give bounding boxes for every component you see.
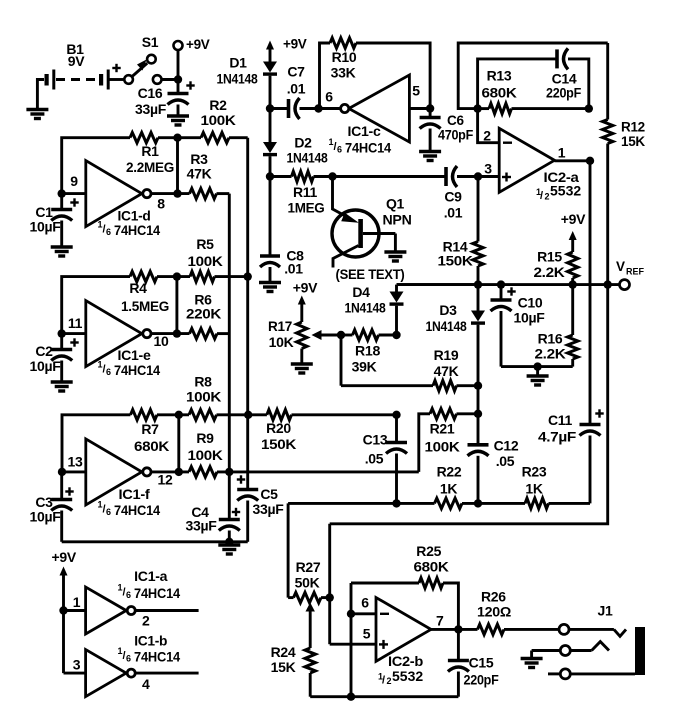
wire (151, 332, 190, 335)
svg-text:R18: R18 (355, 343, 381, 359)
resistor R1 (126, 133, 174, 176)
svg-text:R9: R9 (196, 430, 214, 446)
junction (474, 172, 482, 180)
svg-text:REF: REF (626, 267, 645, 277)
battery B1 ground (26, 80, 48, 119)
svg-text:/: / (382, 675, 385, 687)
capacitor C13 (363, 415, 407, 504)
wire (457, 175, 499, 178)
ground (167, 116, 189, 125)
wire net A (228, 194, 231, 520)
capacitor C7 (287, 64, 306, 120)
resistor R4 (121, 271, 169, 314)
wire (478, 107, 489, 110)
junction node pin13 (58, 468, 66, 476)
node +9V (561, 211, 586, 252)
wire (462, 502, 525, 505)
svg-text:33µF: 33µF (253, 501, 285, 517)
inverter IC1-b (73, 633, 181, 697)
wire (328, 524, 331, 598)
wire (512, 107, 589, 110)
wire (158, 136, 201, 139)
svg-text:33K: 33K (331, 65, 356, 81)
svg-text:R26: R26 (481, 589, 506, 605)
capacitor C10 (491, 285, 546, 367)
capacitor C12 (468, 414, 519, 504)
wire (151, 470, 189, 473)
svg-text:NPN: NPN (383, 212, 412, 228)
junction (173, 189, 181, 197)
node +9V (51, 549, 76, 673)
wire (177, 415, 180, 472)
wire (176, 138, 179, 194)
junction (175, 468, 183, 476)
svg-text:R27: R27 (296, 559, 321, 575)
svg-text:C11: C11 (548, 412, 573, 428)
svg-text:2: 2 (545, 192, 550, 202)
svg-text:.01: .01 (287, 81, 306, 97)
svg-text:1N4148: 1N4148 (217, 71, 258, 87)
svg-text:R22: R22 (437, 464, 462, 480)
svg-text:2.2MEG: 2.2MEG (126, 159, 174, 175)
resistor R22 (435, 464, 463, 509)
wire (217, 332, 229, 335)
junction (173, 272, 181, 280)
wire VREF row (397, 283, 620, 286)
svg-text:15K: 15K (271, 659, 296, 675)
svg-text:D1: D1 (229, 55, 247, 71)
svg-text:100K: 100K (188, 447, 223, 463)
potentiometer R17 (268, 280, 341, 365)
svg-text:R15: R15 (537, 249, 562, 265)
wire (270, 107, 288, 110)
svg-text:100K: 100K (186, 389, 221, 405)
svg-text:100K: 100K (425, 439, 460, 455)
wire (62, 470, 86, 473)
wire (477, 325, 480, 386)
junction (604, 280, 612, 288)
capacitor C9 (444, 166, 463, 221)
svg-text:1K: 1K (440, 481, 457, 497)
svg-text:10: 10 (154, 333, 169, 349)
svg-text:2.2K: 2.2K (535, 346, 566, 362)
junction (497, 280, 505, 288)
wire (568, 59, 589, 109)
svg-text:50K: 50K (295, 575, 320, 591)
svg-text:C10: C10 (518, 295, 543, 311)
svg-text:R7: R7 (141, 421, 159, 437)
svg-text:C15: C15 (469, 655, 494, 671)
svg-text:C13: C13 (363, 432, 388, 448)
wire outer loop (458, 43, 608, 109)
svg-text:680K: 680K (482, 85, 517, 101)
svg-text:+9V: +9V (561, 211, 586, 227)
svg-text:IC1-e: IC1-e (118, 347, 152, 363)
resistor R11 (270, 171, 325, 215)
svg-text:R12: R12 (621, 120, 645, 135)
svg-text:74HC14: 74HC14 (134, 586, 181, 601)
svg-text:10µF: 10µF (30, 219, 62, 235)
svg-text:C16: C16 (138, 85, 163, 101)
wire (215, 275, 248, 278)
svg-text:S1: S1 (142, 34, 159, 50)
junction (225, 538, 233, 546)
svg-text:R24: R24 (271, 644, 296, 660)
wire (549, 502, 591, 505)
inverter IC1-f (68, 439, 173, 518)
resistor R9 (188, 430, 223, 477)
junction (585, 104, 593, 112)
resistor R2 (201, 97, 236, 143)
svg-text:C2: C2 (35, 343, 53, 359)
junction (225, 468, 233, 476)
junction node pin9 (58, 189, 66, 197)
wire (135, 609, 199, 612)
ground (51, 382, 73, 391)
ground (521, 651, 543, 668)
junction (392, 411, 400, 419)
battery B1 (45, 41, 121, 90)
svg-text:2.2K: 2.2K (534, 264, 565, 280)
svg-text:R17: R17 (268, 318, 292, 334)
svg-text:/: / (540, 190, 543, 202)
capacitor C11 (538, 161, 604, 504)
svg-text:IC1-f: IC1-f (119, 486, 151, 502)
svg-text:1N4148: 1N4148 (345, 300, 386, 316)
wire (157, 275, 190, 278)
svg-text:6: 6 (126, 654, 131, 664)
junction (337, 331, 345, 339)
wire (64, 672, 86, 675)
wire (477, 386, 480, 414)
node +9V terminal (174, 37, 210, 80)
wire pin2 (478, 109, 500, 143)
svg-text:R4: R4 (129, 280, 147, 296)
svg-text:3: 3 (73, 657, 81, 673)
junction (474, 382, 482, 390)
wire (314, 175, 445, 178)
junction (426, 104, 434, 112)
junction (474, 280, 482, 288)
svg-text:74HC14: 74HC14 (345, 141, 392, 156)
svg-text:C7: C7 (287, 64, 305, 80)
svg-text:1K: 1K (525, 481, 542, 497)
svg-text:C6: C6 (447, 113, 464, 128)
resistor R7 (131, 410, 170, 454)
junction (347, 693, 355, 701)
svg-text:10µF: 10µF (514, 310, 546, 326)
wire (110, 78, 125, 81)
diode D3 (426, 285, 486, 334)
svg-text:47K: 47K (187, 166, 212, 182)
resistor R16 (535, 285, 578, 367)
svg-text:J1: J1 (598, 603, 613, 619)
svg-text:+9V: +9V (186, 37, 210, 52)
wire (340, 335, 343, 386)
wire (217, 413, 267, 416)
wire (330, 285, 608, 524)
transistor Q1 (332, 177, 412, 283)
junction node pin11 (58, 329, 66, 337)
svg-text:74HC14: 74HC14 (134, 650, 181, 665)
wire (62, 138, 130, 194)
potentiometer R27 (288, 559, 330, 648)
wire (157, 413, 189, 416)
node +9V (266, 37, 307, 62)
svg-text:1: 1 (73, 594, 81, 610)
svg-text:R16: R16 (538, 331, 563, 347)
svg-text:C12: C12 (494, 438, 519, 454)
svg-text:+9V: +9V (283, 37, 307, 52)
svg-text:+9V: +9V (51, 549, 76, 565)
wire (320, 43, 331, 109)
resistor R8 (186, 374, 221, 421)
inverter IC1-e (68, 301, 169, 378)
svg-text:IC1-a: IC1-a (134, 568, 168, 584)
junction (328, 172, 336, 180)
junction (244, 411, 252, 419)
svg-text:33µF: 33µF (186, 518, 218, 534)
svg-text:.05: .05 (365, 451, 384, 467)
resistor R24 (271, 644, 316, 697)
svg-text:IC1-c: IC1-c (348, 123, 382, 139)
junction (326, 593, 334, 601)
svg-text:15K: 15K (621, 134, 645, 149)
wire output (555, 159, 591, 162)
svg-text:9V: 9V (68, 53, 85, 69)
svg-text:47K: 47K (434, 363, 459, 379)
capacitor C1 (30, 194, 79, 247)
resistor R14 (438, 177, 484, 285)
wire (356, 43, 430, 109)
wire (457, 384, 479, 387)
wire (151, 192, 190, 195)
wire (229, 136, 248, 139)
resistor R15 (534, 249, 578, 285)
svg-text:3: 3 (484, 161, 492, 177)
svg-text:6: 6 (106, 507, 111, 517)
svg-text:8: 8 (157, 196, 165, 212)
wire R22 row (288, 502, 434, 505)
resistor R13 (482, 68, 517, 114)
jack J1 sleeve (548, 669, 635, 679)
wire bottom row (310, 695, 458, 698)
svg-text:D2: D2 (294, 135, 312, 151)
inverter IC1-a (73, 568, 181, 634)
svg-text:13: 13 (68, 454, 83, 470)
svg-text:11: 11 (68, 315, 83, 331)
svg-text:+9V: +9V (293, 280, 318, 296)
junction (175, 411, 183, 419)
svg-text:220pF: 220pF (546, 85, 582, 101)
svg-text:6: 6 (337, 145, 342, 155)
ground (51, 247, 73, 256)
svg-text:5532: 5532 (392, 668, 423, 684)
wire (501, 365, 573, 368)
svg-text:10µF: 10µF (30, 358, 62, 374)
svg-text:R19: R19 (434, 347, 459, 363)
junction (586, 157, 594, 165)
wire (62, 192, 86, 195)
wire pin7 (431, 628, 478, 631)
svg-text:4.7µF: 4.7µF (538, 429, 577, 445)
svg-text:150K: 150K (438, 253, 473, 269)
ground (259, 283, 281, 292)
wire (162, 78, 179, 81)
diode D1 (217, 55, 278, 87)
svg-text:12: 12 (158, 472, 173, 488)
svg-text:6: 6 (126, 590, 131, 600)
op-amp IC2-b (361, 595, 444, 687)
svg-text:R11: R11 (293, 184, 318, 200)
wire (300, 107, 341, 110)
svg-text:R5: R5 (196, 236, 214, 252)
wire pin5 (409, 107, 430, 110)
svg-text:R8: R8 (194, 374, 212, 390)
ground (384, 252, 406, 261)
resistor R26 (477, 589, 511, 635)
svg-text:1.5MEG: 1.5MEG (121, 298, 169, 314)
svg-text:10µF: 10µF (30, 509, 62, 525)
svg-text:100K: 100K (188, 253, 223, 269)
switch S1 (124, 34, 161, 84)
wire (135, 672, 199, 675)
junction (347, 610, 355, 618)
capacitor C6 (420, 109, 473, 152)
svg-text:C5: C5 (260, 486, 278, 502)
svg-text:R20: R20 (266, 420, 291, 436)
svg-text:33µF: 33µF (135, 101, 167, 117)
wire (217, 470, 419, 473)
diode D4 (345, 284, 479, 316)
svg-text:R10: R10 (332, 49, 357, 65)
svg-text:4: 4 (142, 676, 150, 692)
resistor R19 (433, 347, 459, 391)
resistor R18 (341, 330, 397, 375)
resistor R20 (261, 410, 296, 452)
capacitor C5 (237, 475, 284, 542)
node VREF terminal (616, 259, 645, 290)
ground (419, 152, 441, 161)
svg-text:39K: 39K (352, 359, 377, 375)
wire (341, 384, 433, 387)
svg-text:D4: D4 (352, 284, 370, 300)
op-amp IC2-a (483, 128, 581, 203)
ground (527, 367, 549, 385)
svg-text:1N4148: 1N4148 (287, 150, 328, 166)
wire (62, 277, 130, 334)
junction (474, 499, 482, 507)
wire (64, 609, 86, 612)
jack J1 body (635, 627, 645, 675)
svg-text:IC1-b: IC1-b (134, 633, 167, 649)
svg-text:6: 6 (106, 227, 111, 237)
svg-text:R2: R2 (209, 97, 227, 113)
svg-text:74HC14: 74HC14 (114, 503, 161, 518)
svg-text:1: 1 (558, 145, 566, 161)
capacitor C14 (546, 48, 582, 100)
wire (269, 156, 272, 176)
wire (504, 628, 559, 631)
svg-text:5: 5 (412, 83, 420, 99)
svg-text:680K: 680K (414, 559, 449, 575)
svg-text:220K: 220K (186, 306, 221, 322)
capacitor C4 (186, 504, 241, 542)
inverter IC1-c (325, 75, 420, 156)
wire C14 loop (478, 59, 557, 109)
junction (533, 362, 541, 370)
junction (244, 272, 252, 280)
junction (474, 410, 482, 418)
junction (392, 331, 400, 339)
svg-text:6: 6 (106, 367, 111, 377)
svg-text:1N4148: 1N4148 (426, 318, 467, 334)
svg-text:R21: R21 (430, 421, 455, 437)
svg-text:220pF: 220pF (464, 672, 500, 688)
svg-text:1MEG: 1MEG (288, 200, 325, 216)
svg-text:74HC14: 74HC14 (114, 223, 161, 238)
junction (569, 280, 577, 288)
svg-text:.05: .05 (496, 453, 515, 469)
svg-text:R23: R23 (522, 464, 547, 480)
svg-text:6: 6 (325, 89, 333, 105)
svg-text:680K: 680K (134, 438, 169, 454)
svg-text:5: 5 (363, 626, 371, 642)
capacitor C8 (260, 177, 304, 283)
svg-text:R1: R1 (141, 143, 159, 159)
wire bottom rail (62, 540, 248, 543)
junction (392, 499, 400, 507)
svg-text:10K: 10K (269, 334, 294, 350)
svg-text:C9: C9 (444, 189, 462, 205)
resistor R5 (188, 236, 223, 282)
junction (174, 75, 182, 83)
svg-text:470pF: 470pF (438, 128, 473, 143)
junction (59, 606, 67, 614)
svg-text:2: 2 (387, 676, 392, 686)
svg-text:120Ω: 120Ω (477, 604, 511, 620)
diode D2 (263, 109, 328, 166)
junction (266, 104, 274, 112)
wire (328, 598, 331, 645)
svg-text:IC1-d: IC1-d (118, 208, 151, 224)
junction (266, 172, 274, 180)
svg-text:2: 2 (142, 613, 150, 629)
resistor R6 (186, 292, 221, 339)
wire (62, 332, 86, 335)
svg-text:150K: 150K (261, 436, 296, 452)
junction (173, 329, 181, 337)
wire (217, 192, 230, 195)
wire pin6 row (351, 612, 376, 615)
resistor R10 (330, 38, 357, 81)
svg-text:7: 7 (436, 613, 444, 629)
resistor R3 (187, 151, 217, 199)
capacitor C16 (135, 80, 195, 118)
svg-text:5532: 5532 (550, 183, 581, 199)
wire (287, 503, 290, 597)
resistor R25 (351, 543, 458, 629)
wire (292, 413, 397, 416)
wire (395, 306, 398, 335)
junction (454, 625, 462, 633)
svg-text:74HC14: 74HC14 (114, 363, 161, 378)
resistor R23 (522, 464, 549, 509)
svg-text:V: V (616, 259, 625, 274)
resistor R21 (419, 409, 478, 472)
svg-text:R13: R13 (487, 68, 512, 84)
wire pin5 row (330, 643, 376, 646)
